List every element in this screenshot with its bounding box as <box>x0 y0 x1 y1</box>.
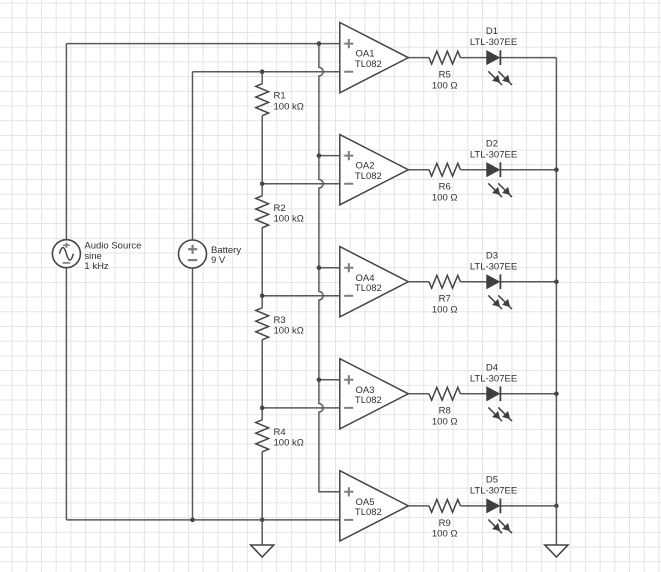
svg-text:LTL-307EE: LTL-307EE <box>470 37 517 48</box>
junction: audio bus to OA2 + <box>317 153 322 158</box>
junction: ladder tap 2 <box>260 294 265 299</box>
resistor R5 100 Ohm <box>429 51 460 91</box>
svg-text:R4: R4 <box>274 427 286 438</box>
svg-text:LTL-307EE: LTL-307EE <box>470 486 517 497</box>
op-amp OA3 TL082 <box>340 359 409 429</box>
ground (ladder / sources) <box>251 520 274 557</box>
svg-text:100 Ω: 100 Ω <box>432 305 458 316</box>
resistor R4 100 kOhm (ladder) <box>256 408 304 520</box>
svg-text:OA1: OA1 <box>356 49 375 60</box>
wire: audio source top lead <box>65 44 67 240</box>
svg-text:R9: R9 <box>439 518 451 529</box>
wire: OA3 output to R8 <box>408 393 429 395</box>
svg-text:100 Ω: 100 Ω <box>432 81 458 92</box>
svg-text:TL082: TL082 <box>355 59 382 70</box>
resistor R2 100 kOhm (ladder) <box>256 184 304 296</box>
svg-text:100 kΩ: 100 kΩ <box>274 438 304 449</box>
junction: audio bus taps top net <box>317 41 322 46</box>
svg-text:D2: D2 <box>486 138 498 149</box>
svg-text:R6: R6 <box>439 182 451 193</box>
svg-text:D4: D4 <box>486 362 498 373</box>
wire: audio bus stub to OA2 + input <box>319 155 340 157</box>
LED D5 LTL-307EE <box>470 475 517 534</box>
svg-text:1 kHz: 1 kHz <box>84 261 109 272</box>
junction: ladder tap 1 <box>260 181 265 186</box>
svg-text:9 V: 9 V <box>211 255 226 266</box>
wire: OA4 output to R7 <box>408 281 429 283</box>
svg-text:100 kΩ: 100 kΩ <box>274 101 304 112</box>
junction: battery bottom on ground rail <box>190 518 195 523</box>
wire: R8 to D4 <box>460 393 486 395</box>
op-amp OA2 TL082 <box>340 135 409 205</box>
svg-text:LTL-307EE: LTL-307EE <box>470 373 517 384</box>
svg-text:Audio Source: Audio Source <box>84 241 141 252</box>
resistor R6 100 Ohm <box>429 163 460 203</box>
junction: D5 cathode on right bus <box>554 504 559 509</box>
junction: ladder tap 3 <box>260 406 265 411</box>
svg-text:D5: D5 <box>486 475 498 486</box>
svg-text:TL082: TL082 <box>355 507 382 518</box>
wire: D5 cathode to right bus <box>500 505 556 507</box>
wire: OA5 output to R9 <box>408 505 429 507</box>
wire: ladder tap to OA3 - input <box>262 407 340 409</box>
wire: R5 to D1 <box>460 57 486 59</box>
svg-text:R7: R7 <box>439 294 451 305</box>
junction: audio bus to OA3 + <box>317 377 322 382</box>
junction: ladder bottom on ground rail <box>260 518 265 523</box>
wire: R7 to D3 <box>460 281 486 283</box>
wire: D3 cathode to right bus <box>500 281 556 283</box>
wire: ground rail bottom horizontal to OA5 - input <box>66 519 339 521</box>
svg-text:R1: R1 <box>274 91 286 102</box>
svg-text:TL082: TL082 <box>355 171 382 182</box>
resistor R8 100 Ohm <box>429 387 460 427</box>
wire: battery bottom lead <box>192 268 194 520</box>
voltage source: Audio Source sine 1 kHz <box>52 240 141 273</box>
LED D2 LTL-307EE <box>470 138 517 197</box>
wire: OA2 output to R6 <box>408 169 429 171</box>
wire: audio net top horizontal to OA1 + input <box>66 43 339 45</box>
wire: OA1 output to R5 <box>408 57 429 59</box>
junction: audio bus to OA4 + <box>317 265 322 270</box>
wire: LED output bus vertical (right) <box>555 58 557 506</box>
wire: D1 cathode to right bus <box>500 57 556 59</box>
wire: R6 to D2 <box>460 169 486 171</box>
wire: R9 to D5 <box>460 505 486 507</box>
wire: D2 cathode to right bus <box>500 169 556 171</box>
svg-text:TL082: TL082 <box>355 283 382 294</box>
wire: battery top lead <box>192 72 194 240</box>
junction: ladder top on battery net <box>260 69 265 74</box>
LED D3 LTL-307EE <box>470 250 517 309</box>
resistor R3 100 kOhm (ladder) <box>256 296 304 408</box>
junction: D2 cathode on right bus <box>554 167 559 172</box>
wire: audio bus stub to OA4 + input <box>319 267 340 269</box>
svg-text:D3: D3 <box>486 250 498 261</box>
svg-text:R3: R3 <box>274 315 286 326</box>
svg-text:100 kΩ: 100 kΩ <box>274 326 304 337</box>
wire: audio bus vertical with hops, elbow to OA5 + input <box>319 44 340 492</box>
LED D4 LTL-307EE <box>470 362 517 421</box>
resistor R1 100 kOhm (ladder) <box>256 72 304 184</box>
wire: battery net horizontal to OA1 - input <box>193 71 340 73</box>
svg-text:R5: R5 <box>439 70 451 81</box>
svg-text:100 kΩ: 100 kΩ <box>274 213 304 224</box>
svg-text:LTL-307EE: LTL-307EE <box>470 149 517 160</box>
svg-text:D1: D1 <box>486 26 498 37</box>
svg-text:100 Ω: 100 Ω <box>432 417 458 428</box>
wire: ladder tap to OA2 - input <box>262 183 340 185</box>
battery 9 V <box>179 240 242 268</box>
op-amp OA1 TL082 <box>340 23 409 93</box>
svg-text:R2: R2 <box>274 203 286 214</box>
svg-text:LTL-307EE: LTL-307EE <box>470 261 517 272</box>
junction: D4 cathode on right bus <box>554 392 559 397</box>
svg-text:R8: R8 <box>439 406 451 417</box>
svg-text:TL082: TL082 <box>355 395 382 406</box>
ground (LED return, right) <box>545 506 568 557</box>
resistor R7 100 Ohm <box>429 275 460 315</box>
wire: D4 cathode to right bus <box>500 393 556 395</box>
LED D1 LTL-307EE <box>470 26 517 85</box>
op-amp OA5 TL082 <box>340 471 409 541</box>
op-amp OA4 TL082 <box>340 247 409 317</box>
resistor R9 100 Ohm <box>429 499 460 539</box>
wire: ladder tap to OA4 - input <box>262 295 340 297</box>
wire: audio bus stub to OA3 + input <box>319 379 340 381</box>
svg-text:100 Ω: 100 Ω <box>432 193 458 204</box>
wire: audio source bottom lead <box>65 268 67 520</box>
junction: D3 cathode on right bus <box>554 279 559 284</box>
svg-text:100 Ω: 100 Ω <box>432 529 458 540</box>
